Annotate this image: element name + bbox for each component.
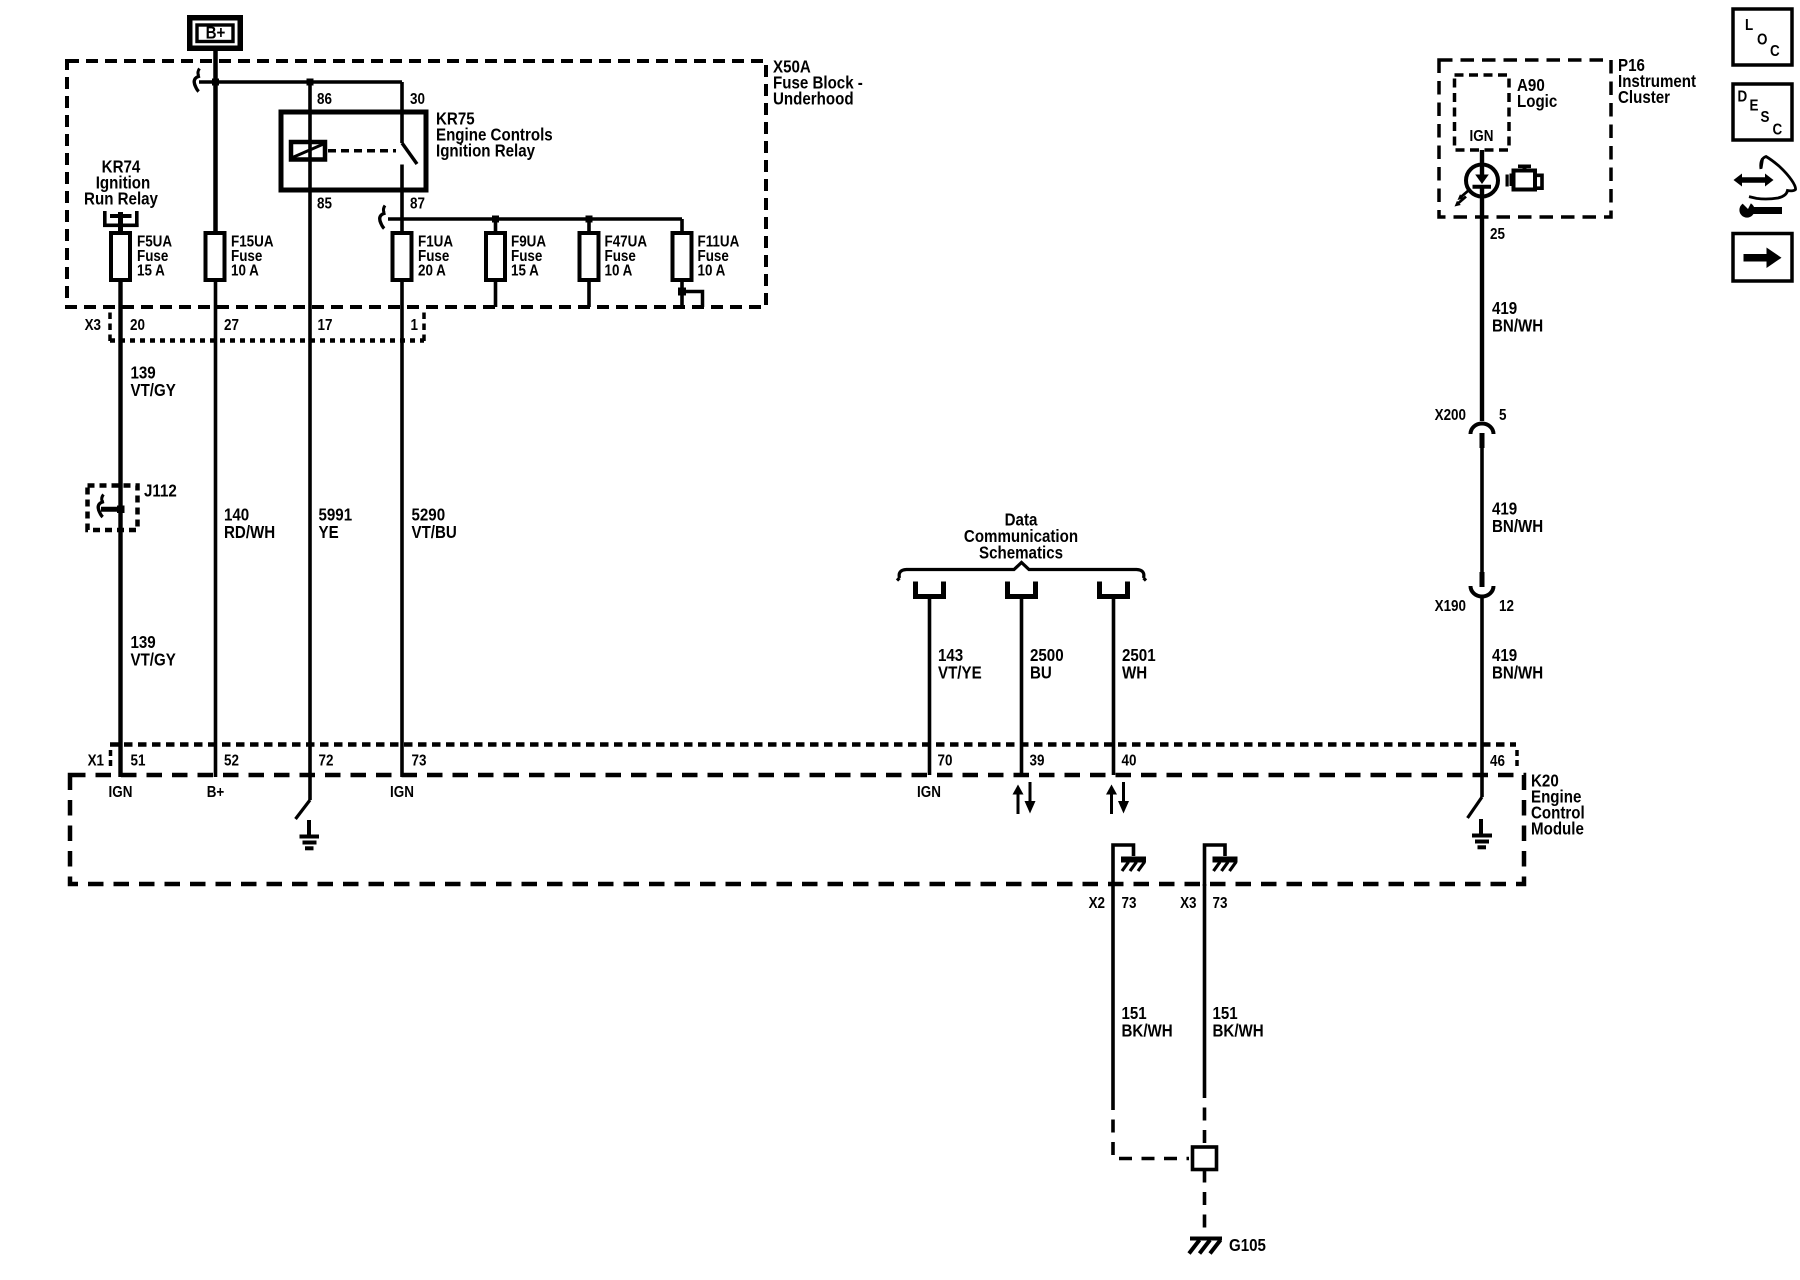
internal switch to ground at pin 46: [1468, 777, 1483, 818]
wire lamp down through P16 to X200: [1480, 197, 1484, 421]
A90 Logic label: [1517, 75, 1557, 112]
svg-text:85: 85: [317, 196, 332, 213]
svg-text:IGN: IGN: [1470, 128, 1494, 145]
svg-text:20: 20: [130, 317, 145, 334]
wire 143 to ECM pin 70: [928, 599, 932, 775]
X50A Fuse Block - Underhood label: [773, 56, 863, 109]
pin 86 label: [317, 91, 332, 108]
wire 419 between X200 and X190: [1480, 448, 1484, 572]
feed bus wire y82: [199, 80, 402, 84]
ground splice square: [1193, 1147, 1217, 1170]
svg-text:17: 17: [318, 317, 333, 334]
sidebar compare icon double arrow: [1734, 174, 1774, 187]
svg-text:Underhood: Underhood: [773, 88, 854, 109]
fuse F47UA: [580, 233, 648, 280]
svg-text:WH: WH: [1122, 662, 1147, 683]
svg-text:12: 12: [1499, 598, 1514, 615]
wire 2501 to ECM pin 40: [1112, 599, 1116, 775]
continuation hook at feed bus left end: [194, 69, 200, 92]
svg-text:15 A: 15 A: [137, 263, 165, 280]
svg-text:BK/WH: BK/WH: [1213, 1020, 1264, 1041]
svg-text:VT/BU: VT/BU: [412, 522, 457, 543]
svg-text:20 A: 20 A: [418, 263, 446, 280]
svg-text:S: S: [1761, 109, 1770, 126]
svg-text:73: 73: [412, 753, 427, 770]
svg-text:5: 5: [1499, 407, 1506, 424]
pin name B+ at 52: [207, 784, 225, 801]
junction at relay coil wire: [307, 79, 314, 86]
connector X1 label: [88, 753, 104, 770]
svg-text:J112: J112: [144, 480, 177, 501]
brace for data communication: [897, 563, 1146, 581]
dashed wire X3 to ground splice: [1203, 1085, 1207, 1145]
logic block A90 dashed box: [1455, 75, 1510, 150]
wire 2501 WH label: [1122, 645, 1156, 683]
fuse F5UA: [111, 233, 172, 280]
ECM K20 dashed box: [70, 775, 1524, 884]
connector X3 left separator: [108, 313, 112, 342]
pin 39 label: [1030, 753, 1045, 770]
svg-text:10 A: 10 A: [605, 263, 633, 280]
svg-text:E: E: [1750, 98, 1759, 115]
splice J112 label: [144, 480, 177, 501]
svg-text:YE: YE: [319, 522, 339, 543]
relay KR75 box: [281, 112, 426, 190]
internal switch to ground at pin 72: [296, 777, 311, 819]
bidirectional arrows at pin 39: [1013, 782, 1036, 814]
wire 143 VT/YE label: [938, 645, 982, 683]
svg-text:1: 1: [411, 317, 418, 334]
wire 2500 to ECM pin 39: [1020, 599, 1024, 775]
pin 46 label: [1490, 753, 1505, 770]
pin 85 label: [317, 196, 332, 213]
pin name IGN at 70: [917, 784, 941, 801]
svg-text:10 A: 10 A: [231, 263, 259, 280]
P16 Instrument Cluster label: [1618, 55, 1696, 108]
svg-text:VT/GY: VT/GY: [131, 380, 176, 401]
pin 73 label: [412, 753, 427, 770]
wire 419 BN/WH label upper: [1492, 298, 1543, 336]
pin 40 label: [1122, 753, 1137, 770]
pin name IGN at 51: [109, 784, 133, 801]
svg-text:52: 52: [224, 753, 239, 770]
svg-text:B+: B+: [207, 784, 225, 801]
wire 151 BK/WH label at X2: [1122, 1003, 1173, 1041]
pin 20 label: [130, 317, 145, 334]
pin 27 label: [224, 317, 239, 334]
wire 151 BK/WH from X2-73: [1111, 884, 1115, 1097]
svg-text:39: 39: [1030, 753, 1045, 770]
wire from B+ down to fuse F15UA: [213, 51, 218, 777]
power feed B+ box: [187, 15, 243, 51]
wire relay pin 86 to 85 down to ECM pin 72: [308, 82, 312, 777]
svg-text:O: O: [1757, 31, 1767, 48]
junction at B+ tee: [212, 79, 219, 86]
wire 419 down to ECM pin 46: [1480, 597, 1484, 776]
svg-text:X2: X2: [1089, 895, 1105, 912]
svg-text:VT/GY: VT/GY: [131, 649, 176, 670]
svg-text:Ignition Relay: Ignition Relay: [436, 140, 536, 161]
svg-text:RD/WH: RD/WH: [224, 522, 275, 543]
pin 12 label: [1499, 598, 1514, 615]
wire KR74 to ECM pin 51: [118, 227, 122, 777]
internal ground hook at ECM X3-73: [1205, 845, 1238, 886]
svg-text:X190: X190: [1435, 598, 1466, 615]
connector X3 strip dotted bottom: [110, 338, 424, 343]
svg-text:IGN: IGN: [917, 784, 941, 801]
ground symbol inside ECM at pin 72: [300, 820, 320, 848]
pin 52 label: [224, 753, 239, 770]
svg-text:BK/WH: BK/WH: [1122, 1020, 1173, 1041]
terminal to data link at 39: [1008, 582, 1036, 597]
wire relay pin 30: [400, 82, 404, 143]
svg-text:51: 51: [131, 753, 146, 770]
instrument cluster P16 dashed box: [1439, 60, 1611, 217]
wire 139 VT/GY label upper: [131, 362, 176, 400]
dashed wire X2 to ground splice: [1113, 1097, 1189, 1159]
connector X1 dotted strip: [110, 742, 1516, 747]
svg-text:X3: X3: [1180, 895, 1196, 912]
ground symbol inside ECM at pin 46: [1472, 819, 1492, 847]
svg-text:86: 86: [317, 91, 332, 108]
junction at F47UA: [586, 216, 593, 223]
pin 70 label: [938, 753, 953, 770]
svg-text:73: 73: [1122, 895, 1137, 912]
connector X3 label: [85, 317, 101, 334]
bidirectional arrows at pin 40: [1106, 782, 1129, 814]
connector X1 left separator: [109, 750, 113, 768]
svg-text:73: 73: [1213, 895, 1228, 912]
svg-text:10 A: 10 A: [698, 263, 726, 280]
IGN label inside A90: [1470, 128, 1494, 145]
svg-text:15 A: 15 A: [511, 263, 539, 280]
pin 73 label at X3: [1213, 895, 1228, 912]
engine MIL icon: [1506, 165, 1544, 191]
wire 140 RD/WH label: [224, 504, 275, 542]
wire stub F47UA: [587, 219, 591, 307]
terminal to data link at 70: [916, 582, 944, 597]
fuse F1UA: [393, 233, 454, 280]
sidebar LOC box: [1733, 9, 1792, 65]
inline connector X190: [1471, 572, 1494, 597]
pin 17 label: [318, 317, 333, 334]
pin 72 label: [319, 753, 334, 770]
junction at F9UA: [492, 216, 499, 223]
svg-text:25: 25: [1490, 226, 1505, 243]
KR75 Engine Controls Ignition Relay label: [436, 108, 553, 161]
svg-text:Module: Module: [1531, 818, 1584, 839]
svg-text:IGN: IGN: [109, 784, 133, 801]
splice J112 dashed box: [88, 486, 138, 531]
svg-text:L: L: [1745, 17, 1753, 34]
svg-text:72: 72: [319, 753, 334, 770]
svg-text:Logic: Logic: [1517, 91, 1557, 112]
svg-text:87: 87: [410, 196, 425, 213]
svg-text:Run Relay: Run Relay: [84, 188, 159, 209]
svg-text:C: C: [1770, 43, 1780, 60]
svg-text:BN/WH: BN/WH: [1492, 315, 1543, 336]
svg-text:C: C: [1773, 122, 1783, 139]
wire 151 BK/WH label at X3: [1213, 1003, 1264, 1041]
svg-text:27: 27: [224, 317, 239, 334]
Data Communication Schematics label: [964, 509, 1078, 563]
svg-text:BN/WH: BN/WH: [1492, 516, 1543, 537]
relay KR75 coil: [291, 142, 325, 160]
connector X190 label: [1435, 598, 1466, 615]
wire A90 to indicator lamp: [1480, 150, 1484, 165]
svg-text:Cluster: Cluster: [1618, 87, 1671, 108]
svg-text:46: 46: [1490, 753, 1505, 770]
wire 419 BN/WH label middle: [1492, 498, 1543, 536]
wire 139 VT/GY label lower: [131, 632, 176, 670]
pin 73 label at X2: [1122, 895, 1137, 912]
wire F11UA with jog terminal: [678, 219, 703, 307]
pin 5 label: [1499, 407, 1506, 424]
pin 25 label: [1490, 226, 1505, 243]
svg-text:X3: X3: [85, 317, 101, 334]
connector X2 label: [1089, 895, 1105, 912]
ground G105 label: [1229, 1235, 1266, 1256]
fused bus wire from 87: [388, 217, 682, 220]
svg-text:VT/YE: VT/YE: [938, 662, 982, 683]
K20 Engine Control Module label: [1531, 770, 1585, 839]
connector X3 right separator: [422, 313, 426, 342]
inline connector X200: [1471, 424, 1494, 448]
pin 1 label: [411, 317, 418, 334]
svg-text:B+: B+: [206, 22, 226, 43]
relay KR74 contact symbol: [103, 211, 139, 234]
wire relay pin 87 down through fuse F1UA to ECM pin 73: [400, 165, 404, 778]
relay KR74 label: [84, 156, 159, 209]
wire 5290 VT/BU label: [412, 504, 457, 542]
svg-text:G105: G105: [1229, 1235, 1266, 1256]
svg-text:D: D: [1738, 89, 1748, 106]
ground G105 symbol: [1189, 1239, 1222, 1254]
continuation hook at 87 bus left end: [380, 206, 386, 229]
fuse F9UA: [486, 233, 546, 280]
connector X3 label lower: [1180, 895, 1196, 912]
pin 30 label: [410, 91, 425, 108]
svg-text:X1: X1: [88, 753, 104, 770]
svg-text:Schematics: Schematics: [979, 542, 1063, 563]
svg-text:BN/WH: BN/WH: [1492, 662, 1543, 683]
svg-text:BU: BU: [1030, 662, 1052, 683]
wire stub F9UA: [494, 219, 498, 307]
svg-text:IGN: IGN: [390, 784, 414, 801]
indicator lamp circle: [1466, 165, 1498, 198]
lamp light rays: [1455, 190, 1470, 207]
wire 151 BK/WH from X3-73: [1203, 884, 1207, 1085]
svg-text:70: 70: [938, 753, 953, 770]
wire 5991 YE label: [319, 504, 353, 542]
svg-text:X200: X200: [1435, 407, 1466, 424]
pin name IGN at 73: [390, 784, 414, 801]
sidebar DESC box: [1733, 84, 1792, 140]
relay KR75 contact blade: [402, 143, 417, 164]
sidebar compare icon outline: [1749, 157, 1796, 200]
connector X200 label: [1435, 407, 1466, 424]
dashed wire to G105: [1203, 1170, 1207, 1234]
wire 419 BN/WH label lower: [1492, 645, 1543, 683]
sidebar compare icon wrench: [1739, 200, 1782, 218]
sidebar next arrow box: [1733, 234, 1792, 282]
terminal to data link at 40: [1100, 582, 1128, 597]
fuse block X50A dashed box: [67, 61, 766, 307]
pin 87 label: [410, 196, 425, 213]
wire 2500 BU label: [1030, 645, 1064, 683]
fuse F15UA: [206, 233, 274, 280]
splice J112 symbol: [98, 495, 124, 518]
fuse F11UA: [673, 233, 740, 280]
pin 51 label: [131, 753, 146, 770]
internal ground hook at ECM X2-73: [1113, 845, 1146, 886]
svg-text:40: 40: [1122, 753, 1137, 770]
svg-text:30: 30: [410, 91, 425, 108]
connector X1 right separator: [1515, 750, 1519, 768]
relay KR75 coil-contact dashed link: [328, 149, 396, 153]
